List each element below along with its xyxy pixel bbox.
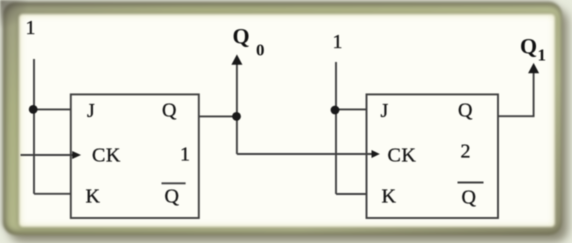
svg-text:Q: Q (162, 100, 177, 122)
svg-text:J: J (381, 100, 389, 122)
svg-text:Q: Q (233, 24, 250, 49)
svg-text:1: 1 (180, 144, 190, 166)
svg-text:1: 1 (333, 31, 343, 53)
svg-text:1: 1 (538, 46, 547, 65)
svg-text:K: K (86, 186, 101, 208)
svg-text:CK: CK (388, 145, 417, 167)
svg-text:0: 0 (256, 41, 265, 60)
svg-text:2: 2 (461, 141, 471, 163)
svg-text:Q: Q (458, 100, 473, 122)
svg-text:1: 1 (26, 17, 36, 39)
svg-text:Q: Q (520, 34, 537, 59)
svg-text:Q: Q (462, 187, 477, 209)
svg-text:Q: Q (165, 186, 180, 208)
svg-text:CK: CK (92, 145, 121, 167)
svg-text:K: K (382, 186, 397, 208)
svg-text:J: J (87, 100, 95, 122)
